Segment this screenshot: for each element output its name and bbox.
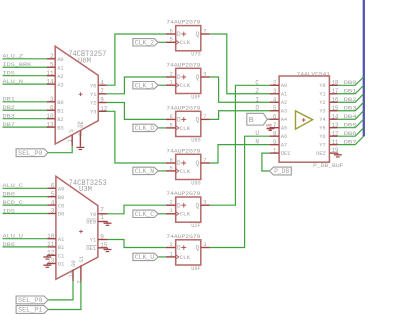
svg-text:U9G: U9G xyxy=(191,180,200,186)
svg-text:18: 18 xyxy=(332,79,339,86)
svg-text:A3: A3 xyxy=(281,109,287,115)
svg-text:SEL_P0: SEL_P0 xyxy=(18,297,43,304)
svg-text:ALU_N: ALU_N xyxy=(3,79,24,85)
svg-text:OE1: OE1 xyxy=(281,151,290,157)
svg-text:4: 4 xyxy=(51,199,55,206)
svg-text:P_DB: P_DB xyxy=(274,168,289,175)
svg-text:U2F: U2F xyxy=(191,223,200,229)
svg-text:U8G: U8G xyxy=(191,137,200,143)
svg-text:Y3: Y3 xyxy=(90,109,96,116)
svg-text:U8F: U8F xyxy=(191,94,200,100)
svg-text:ALU_C: ALU_C xyxy=(3,183,24,189)
svg-text:7: 7 xyxy=(100,206,104,213)
svg-text:DB1: DB1 xyxy=(344,89,357,95)
svg-text:D: D xyxy=(177,160,181,167)
svg-text:3: 3 xyxy=(273,88,277,95)
svg-text:5: 5 xyxy=(169,36,172,43)
svg-text:A1: A1 xyxy=(58,236,65,243)
svg-text:DB6: DB6 xyxy=(344,131,357,137)
svg-text:1: 1 xyxy=(100,214,104,221)
svg-text:OE: OE xyxy=(78,120,85,127)
svg-text:C1: C1 xyxy=(58,253,65,260)
svg-text:7: 7 xyxy=(203,156,206,163)
svg-text:A5: A5 xyxy=(281,126,287,132)
svg-text:DB0: DB0 xyxy=(3,192,15,198)
svg-text:Y5: Y5 xyxy=(319,126,325,132)
svg-text:D1: D1 xyxy=(58,261,65,268)
svg-text:DB3: DB3 xyxy=(3,114,15,120)
svg-text:12: 12 xyxy=(332,130,339,137)
svg-text:14: 14 xyxy=(332,113,339,120)
svg-text:B0: B0 xyxy=(58,194,65,201)
svg-text:2: 2 xyxy=(273,80,277,87)
svg-text:6: 6 xyxy=(169,27,172,34)
svg-text:A0: A0 xyxy=(58,186,65,193)
svg-text:Q: Q xyxy=(196,31,200,38)
svg-text:CLK: CLK xyxy=(180,169,191,175)
svg-text:DB5: DB5 xyxy=(344,123,357,129)
svg-text:CLK: CLK xyxy=(180,255,191,261)
svg-text:Y7: Y7 xyxy=(319,143,325,149)
svg-text:OE2: OE2 xyxy=(316,151,325,157)
svg-text:CLK_N: CLK_N xyxy=(135,168,155,175)
svg-text:S: S xyxy=(68,129,75,133)
svg-text:16: 16 xyxy=(332,96,339,103)
svg-text:17: 17 xyxy=(332,88,339,95)
svg-text:D: D xyxy=(177,31,181,38)
svg-text:10: 10 xyxy=(47,233,55,240)
svg-text:SEL_P1: SEL_P1 xyxy=(18,307,43,314)
svg-text:Y2: Y2 xyxy=(90,100,96,107)
svg-text:2: 2 xyxy=(169,241,172,248)
svg-text:Y0: Y0 xyxy=(90,211,97,218)
svg-text:Q: Q xyxy=(196,160,200,167)
svg-text:CLK: CLK xyxy=(180,212,191,218)
svg-text:DB7: DB7 xyxy=(344,139,357,145)
svg-text:ALU_Z: ALU_Z xyxy=(3,54,24,60)
svg-text:6: 6 xyxy=(50,104,54,111)
svg-text:2: 2 xyxy=(50,53,54,60)
svg-text:4: 4 xyxy=(273,96,277,103)
svg-text:CLK: CLK xyxy=(180,126,191,132)
svg-text:Q: Q xyxy=(196,202,200,209)
svg-text:74AUP2G79: 74AUP2G79 xyxy=(166,62,200,68)
svg-text:5: 5 xyxy=(273,105,277,112)
svg-text:3: 3 xyxy=(203,199,206,206)
svg-text:74AUP2G79: 74AUP2G79 xyxy=(166,20,200,26)
svg-text:Y1: Y1 xyxy=(90,91,97,98)
svg-text:IDS: IDS xyxy=(3,71,15,77)
svg-text:8: 8 xyxy=(273,130,277,137)
svg-text:CLK_U: CLK_U xyxy=(135,254,155,261)
svg-text:ALU_U: ALU_U xyxy=(3,234,24,240)
svg-text:DB4: DB4 xyxy=(344,114,357,120)
svg-text:IDS_BRK: IDS_BRK xyxy=(3,62,33,68)
svg-text:B3: B3 xyxy=(57,124,63,131)
svg-text:5: 5 xyxy=(50,61,54,68)
svg-text:DB2: DB2 xyxy=(344,97,357,103)
svg-text:5: 5 xyxy=(169,164,172,171)
svg-text:B1: B1 xyxy=(58,244,65,251)
svg-text:D: D xyxy=(177,117,181,124)
svg-text:5: 5 xyxy=(51,191,55,198)
svg-text:U7G: U7G xyxy=(191,52,200,58)
svg-text:S0: S0 xyxy=(70,260,77,267)
svg-text:7: 7 xyxy=(203,27,206,34)
svg-text:U3M: U3M xyxy=(79,186,92,194)
svg-text:9: 9 xyxy=(273,139,277,146)
svg-text:P_DB_BUF: P_DB_BUF xyxy=(313,163,344,169)
svg-text:13: 13 xyxy=(332,122,339,129)
svg-text:CLK_C: CLK_C xyxy=(135,211,155,218)
svg-text:2: 2 xyxy=(169,70,172,77)
svg-text:B: B xyxy=(249,117,255,125)
svg-text:11: 11 xyxy=(47,241,55,248)
svg-text:9: 9 xyxy=(100,97,104,104)
svg-text:A2: A2 xyxy=(281,100,287,106)
svg-text:IDS: IDS xyxy=(3,208,15,214)
svg-text:C0: C0 xyxy=(58,202,65,209)
svg-text:B1: B1 xyxy=(57,107,64,114)
svg-text:9: 9 xyxy=(100,234,104,241)
svg-text:15: 15 xyxy=(100,242,108,249)
svg-text:4: 4 xyxy=(100,79,104,86)
svg-text:A1: A1 xyxy=(281,92,287,98)
svg-text:U6M: U6M xyxy=(78,58,91,66)
svg-text:DB0: DB0 xyxy=(344,80,357,86)
svg-text:Y3: Y3 xyxy=(319,109,325,115)
svg-text:14: 14 xyxy=(46,78,54,85)
svg-text:U9F: U9F xyxy=(191,266,200,272)
svg-text:1: 1 xyxy=(273,147,277,154)
svg-text:13: 13 xyxy=(47,258,55,265)
svg-text:CLK_2: CLK_2 xyxy=(135,39,155,46)
svg-text:74AUP2G79: 74AUP2G79 xyxy=(166,191,200,197)
svg-text:DB2: DB2 xyxy=(3,105,15,111)
svg-text:Y6: Y6 xyxy=(319,134,325,140)
svg-text:7: 7 xyxy=(203,113,206,120)
svg-text:15: 15 xyxy=(332,105,339,112)
svg-text:D: D xyxy=(177,202,181,209)
svg-text:BCD_C: BCD_C xyxy=(3,200,24,206)
svg-text:GND: GND xyxy=(266,124,272,128)
svg-text:3: 3 xyxy=(50,96,54,103)
svg-text:2: 2 xyxy=(169,199,172,206)
svg-text:D: D xyxy=(177,245,181,252)
svg-text:Y2: Y2 xyxy=(319,100,325,106)
svg-text:Y0: Y0 xyxy=(319,83,325,89)
svg-text:A6: A6 xyxy=(281,134,287,140)
svg-text:74ALVC541: 74ALVC541 xyxy=(297,72,331,78)
svg-text:3: 3 xyxy=(51,208,55,215)
svg-text:5: 5 xyxy=(169,121,172,128)
svg-text:CLK_D: CLK_D xyxy=(135,125,155,132)
svg-text:13: 13 xyxy=(46,121,54,128)
svg-text:S1: S1 xyxy=(78,255,85,262)
svg-text:DB1: DB1 xyxy=(3,97,15,103)
svg-text:Y1: Y1 xyxy=(319,92,325,98)
svg-text:A2: A2 xyxy=(57,73,63,80)
svg-text:B0: B0 xyxy=(57,99,64,106)
svg-text:Y1: Y1 xyxy=(90,237,97,244)
svg-text:SEL_P0: SEL_P0 xyxy=(18,150,43,157)
svg-text:CLK_1: CLK_1 xyxy=(135,82,155,89)
svg-text:A1: A1 xyxy=(57,64,64,71)
svg-text:6: 6 xyxy=(273,113,277,120)
svg-text:11: 11 xyxy=(46,70,54,77)
svg-text:3: 3 xyxy=(203,241,206,248)
svg-text:14: 14 xyxy=(67,270,74,277)
svg-text:74AUP2G79: 74AUP2G79 xyxy=(166,105,200,111)
svg-text:DB6: DB6 xyxy=(3,242,15,248)
svg-text:74AUP2G79: 74AUP2G79 xyxy=(166,234,200,240)
svg-text:3: 3 xyxy=(203,70,206,77)
svg-text:A4: A4 xyxy=(281,117,287,123)
svg-text:Y0: Y0 xyxy=(90,82,97,89)
svg-text:D0: D0 xyxy=(58,211,65,218)
svg-text:15: 15 xyxy=(77,129,84,136)
svg-text:12: 12 xyxy=(47,250,55,257)
svg-text:DB7: DB7 xyxy=(3,122,15,128)
svg-text:DB3: DB3 xyxy=(344,106,357,112)
svg-text:7: 7 xyxy=(100,88,104,95)
svg-text:11: 11 xyxy=(332,139,339,146)
svg-text:OE1: OE1 xyxy=(86,245,97,252)
svg-text:74AUP2G79: 74AUP2G79 xyxy=(166,148,200,154)
svg-text:A0: A0 xyxy=(57,56,64,63)
svg-text:CLK: CLK xyxy=(180,40,191,46)
svg-text:D: D xyxy=(177,74,181,81)
svg-text:A3: A3 xyxy=(57,81,63,88)
svg-text:B2: B2 xyxy=(57,116,63,123)
svg-text:Q: Q xyxy=(196,74,200,81)
svg-text:A0: A0 xyxy=(281,83,287,89)
svg-text:10: 10 xyxy=(46,113,54,120)
svg-text:Y4: Y4 xyxy=(319,117,325,123)
svg-text:6: 6 xyxy=(169,156,172,163)
svg-text:Q: Q xyxy=(196,117,200,124)
svg-text:6: 6 xyxy=(169,113,172,120)
svg-text:6: 6 xyxy=(51,183,55,190)
svg-text:CLK: CLK xyxy=(180,83,191,89)
svg-text:OE0: OE0 xyxy=(86,219,97,226)
svg-text:A7: A7 xyxy=(281,143,287,149)
svg-text:Q: Q xyxy=(196,245,200,252)
